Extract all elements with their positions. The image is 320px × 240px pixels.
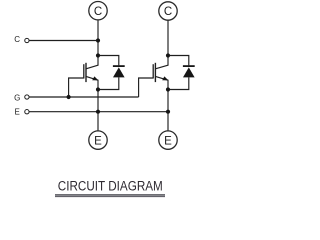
svg-text:CIRCUIT DIAGRAM: CIRCUIT DIAGRAM [58,179,163,194]
svg-text:E: E [15,107,20,116]
svg-text:C: C [14,35,20,44]
svg-text:C: C [94,6,102,18]
svg-text:E: E [164,135,172,147]
svg-text:C: C [164,6,172,18]
svg-text:E: E [94,135,102,147]
svg-text:G: G [14,93,20,102]
